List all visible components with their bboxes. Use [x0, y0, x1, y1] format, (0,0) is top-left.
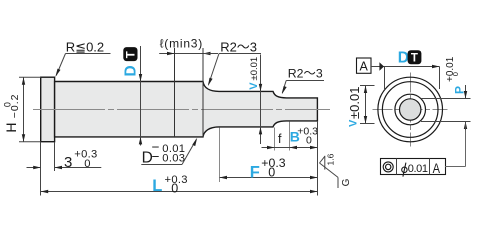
- pin body with tapers and tip (side view): [55, 82, 318, 137]
- H dimension extension lines: [19, 76, 41, 78]
- 3 dimension (head thickness): [54, 142, 56, 171]
- svg-text:T: T: [411, 52, 418, 64]
- centerline (side view): [33, 109, 330, 111]
- V circle: [395, 94, 426, 125]
- svg-text:±0.01: ±0.01: [249, 57, 260, 81]
- svg-text:D: D: [398, 50, 409, 67]
- end view centerlines: [373, 109, 448, 111]
- surface finish symbol: [320, 156, 325, 163]
- svg-text:±0.01: ±0.01: [347, 87, 362, 119]
- svg-text:T: T: [126, 51, 138, 58]
- L dimension: [40, 142, 42, 196]
- svg-text:R2～3: R2～3: [220, 40, 257, 55]
- F dimension: [219, 128, 221, 183]
- V dimension (side view, rotated label): [249, 57, 260, 81]
- D dimension line (vertical through shaft): [140, 46, 142, 146]
- svg-text:H: H: [3, 122, 19, 132]
- D configurable icon (side view, rotated): [123, 47, 137, 61]
- feature control frame: [381, 159, 446, 175]
- l(min3) dimension line with outside arrows: [159, 53, 174, 55]
- svg-text:−: −: [152, 149, 160, 164]
- pin head (side view): [41, 77, 55, 142]
- svg-text:G: G: [341, 178, 352, 186]
- svg-text:0: 0: [171, 181, 178, 195]
- D circle: [382, 82, 438, 138]
- V dimension (end view): [360, 85, 375, 87]
- svg-text:0: 0: [306, 135, 312, 147]
- H circle: [378, 77, 443, 142]
- svg-text:L: L: [152, 177, 162, 195]
- svg-text:V: V: [248, 82, 260, 90]
- svg-text:R≦0.2: R≦0.2: [66, 40, 104, 55]
- svg-text:f: f: [278, 132, 282, 146]
- T icon (end view): [408, 50, 422, 64]
- P circle (filled): [400, 99, 421, 120]
- H dimension line: [23, 77, 25, 142]
- svg-text:0.01: 0.01: [408, 163, 428, 175]
- datum A box: [357, 58, 372, 73]
- svg-text:A: A: [433, 161, 441, 176]
- svg-text:3: 3: [64, 154, 72, 171]
- svg-text:A: A: [360, 60, 369, 74]
- svg-text:+0.01: +0.01: [445, 56, 456, 82]
- P dimension (end view): [421, 98, 471, 100]
- FCF leader: [445, 166, 466, 168]
- svg-text:0: 0: [268, 166, 275, 180]
- svg-text:V: V: [348, 119, 360, 127]
- svg-text:−0.2: −0.2: [9, 93, 21, 118]
- H label (rotated): [3, 93, 22, 132]
- svg-text:P: P: [453, 86, 467, 94]
- l extension lines crossing shaft: [174, 48, 176, 137]
- svg-text:R2～3: R2～3: [288, 67, 323, 81]
- svg-text:0: 0: [84, 158, 91, 170]
- D label blue (side view, rotated): [122, 65, 139, 76]
- svg-text:F: F: [250, 163, 260, 181]
- D extension lines (end view): [384, 67, 386, 92]
- f/B dimension line: [262, 147, 275, 149]
- svg-text:1.6: 1.6: [326, 153, 336, 165]
- svg-text:0: 0: [451, 72, 460, 76]
- svg-text:0.03: 0.03: [162, 153, 185, 165]
- datum leader / D dim line: [371, 66, 440, 68]
- svg-text:ℓ(min3): ℓ(min3): [160, 36, 203, 50]
- f and B dimension extension lines: [274, 128, 276, 151]
- svg-text:D: D: [122, 65, 139, 76]
